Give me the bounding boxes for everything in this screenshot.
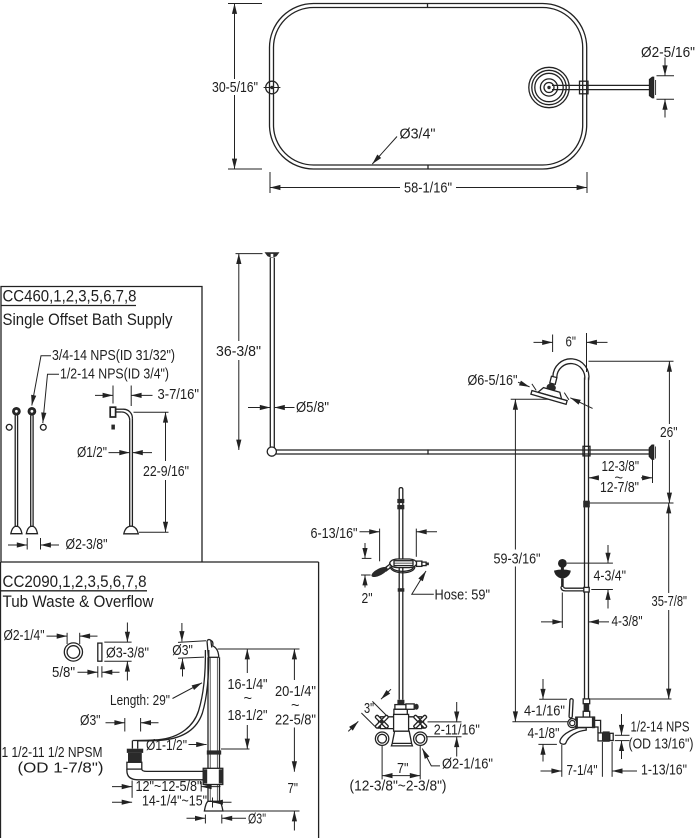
leader to supply pipe 1 bbox=[32, 356, 51, 406]
dimension 4-1/8 bbox=[538, 744, 557, 761]
dimension 35-7/8 bbox=[668, 503, 670, 699]
svg-text:3/4-14 NPS(ID 31/32"): 3/4-14 NPS(ID 31/32") bbox=[52, 348, 175, 364]
svg-text:Ø1/2": Ø1/2" bbox=[77, 445, 107, 461]
hanger loop bbox=[390, 567, 415, 573]
slider body bbox=[390, 559, 417, 568]
hand shower neck bbox=[383, 564, 392, 572]
svg-text:3": 3" bbox=[364, 701, 374, 717]
diverter on slide bar bbox=[394, 700, 419, 715]
shower head bbox=[531, 385, 569, 405]
dimension OD 13/16 bbox=[615, 714, 630, 759]
curtain rod rail (elevation) bbox=[270, 450, 650, 454]
extension line at 26/35-7/8 bbox=[589, 502, 674, 504]
curtain rod plan view inner ring bbox=[274, 8, 583, 166]
drain locknut bbox=[127, 762, 142, 769]
svg-text:(12-3/8"~2-3/8"): (12-3/8"~2-3/8") bbox=[350, 779, 447, 795]
right faucet riser fittings bbox=[583, 699, 590, 717]
dimension 7-1/4 bbox=[541, 742, 603, 777]
svg-text:CC2090,1,2,3,5,6,7,8: CC2090,1,2,3,5,6,7,8 bbox=[3, 573, 147, 591]
dimension 26 bbox=[589, 361, 674, 503]
ceiling flange (elevation) bbox=[265, 252, 280, 257]
svg-text:14-1/4"~15": 14-1/4"~15" bbox=[142, 794, 207, 810]
wall-support flange rings (plan) bbox=[529, 67, 569, 107]
overflow head bbox=[207, 640, 219, 658]
dimension 14-1/4 ~ 15 bbox=[112, 798, 232, 808]
right faucet valve bonnet bbox=[568, 719, 577, 728]
dimension 3-7/16 bbox=[95, 386, 153, 407]
faucet body (center) bbox=[378, 714, 424, 731]
rod joint tick top (plan) bbox=[427, 4, 429, 9]
dimension dia 2-1/16 with leader bbox=[422, 749, 440, 766]
svg-text:12-7/8": 12-7/8" bbox=[600, 480, 639, 496]
svg-text:~: ~ bbox=[244, 691, 253, 707]
hand shower head bbox=[370, 565, 389, 579]
curtain rod plan view outer ring bbox=[270, 4, 587, 170]
CC2090 box border bbox=[1, 562, 319, 838]
svg-text:58-1/16": 58-1/16" bbox=[404, 180, 452, 196]
dimension 4-3/4 bbox=[567, 545, 613, 609]
dimension 12 ~ 12-5/8 bbox=[112, 781, 221, 798]
slide bar mid band bbox=[398, 588, 405, 592]
slide bar (center product) bbox=[399, 488, 403, 700]
dimension dia 2-5/16 bbox=[657, 58, 675, 118]
svg-text:12"~12-5/8": 12"~12-5/8" bbox=[136, 779, 202, 795]
dimension 59-3/16 bbox=[511, 399, 562, 722]
svg-text:Ø3": Ø3" bbox=[248, 812, 266, 828]
riser coupling band bbox=[583, 501, 590, 508]
svg-text:59-3/16": 59-3/16" bbox=[494, 551, 541, 567]
svg-text:Ø2-5/16": Ø2-5/16" bbox=[641, 45, 695, 61]
dimension dia 3 (base) bbox=[187, 815, 247, 824]
slide bar top fitting bbox=[397, 499, 404, 509]
right faucet wall nipple bbox=[598, 731, 613, 741]
svg-text:4-1/16": 4-1/16" bbox=[524, 704, 565, 720]
rod clamp at ring crossing (plan) bbox=[580, 81, 589, 94]
svg-text:5/8": 5/8" bbox=[52, 665, 75, 681]
overflow pipe bbox=[208, 657, 220, 801]
dimension 7 (center) bbox=[382, 746, 420, 779]
flexible hose bbox=[133, 650, 209, 741]
svg-text:Ø3-3/8": Ø3-3/8" bbox=[106, 646, 149, 662]
rail wall bracket (elevation) bbox=[649, 445, 655, 459]
dimension 7 (overflow base) bbox=[224, 811, 300, 831]
svg-text:6": 6" bbox=[566, 335, 577, 351]
side outlet circle 2 bbox=[40, 424, 46, 430]
label dia 6-5/16 bbox=[518, 382, 593, 408]
svg-text:35-7/8": 35-7/8" bbox=[652, 594, 688, 610]
svg-text:1/2-14 NPS(ID 3/4"): 1/2-14 NPS(ID 3/4") bbox=[60, 366, 169, 382]
waste tee bbox=[203, 768, 223, 784]
svg-text:Hose: 59": Hose: 59" bbox=[435, 588, 491, 604]
ceiling support pipe (elevation) bbox=[270, 258, 274, 450]
svg-text:4-3/8": 4-3/8" bbox=[612, 614, 643, 630]
svg-text:CC460,1,2,3,5,6,7,8: CC460,1,2,3,5,6,7,8 bbox=[3, 288, 137, 306]
overflow base flange bbox=[204, 801, 223, 811]
svg-text:Ø6-5/16": Ø6-5/16" bbox=[468, 373, 518, 389]
overflow gasket ring bbox=[64, 643, 82, 661]
svg-text:Length: 29": Length: 29" bbox=[110, 693, 170, 709]
wall bracket (plan) bbox=[650, 77, 656, 97]
supply pipe 1 bbox=[11, 408, 22, 534]
dimension 30-5/16 bbox=[228, 4, 262, 170]
dimension dia 2-1/4 bbox=[47, 633, 98, 644]
overflow plate side view bbox=[98, 643, 102, 661]
svg-text:26": 26" bbox=[660, 425, 678, 441]
dimension dia 3 (overflow head) bbox=[178, 623, 206, 677]
gooseneck bbox=[553, 359, 589, 380]
svg-text:18-1/2": 18-1/2" bbox=[228, 708, 268, 724]
supply pipe 2 bbox=[26, 408, 37, 534]
dimension dia 1/2 bbox=[109, 452, 153, 454]
svg-text:Ø3/4": Ø3/4" bbox=[400, 127, 436, 143]
svg-text:7": 7" bbox=[397, 761, 409, 777]
pipe coupling band bbox=[207, 750, 221, 754]
drain stub bbox=[132, 741, 137, 749]
svg-text:22-5/8": 22-5/8" bbox=[275, 712, 316, 728]
svg-text:36-3/8": 36-3/8" bbox=[216, 344, 261, 360]
dimension dia 3-3/8 bbox=[104, 623, 131, 681]
rod section joint tick bbox=[427, 449, 429, 454]
rail ball joint at support bbox=[267, 447, 276, 456]
svg-text:1-13/16": 1-13/16" bbox=[641, 763, 687, 779]
svg-text:3-7/16": 3-7/16" bbox=[158, 387, 200, 403]
CC460 box border bbox=[1, 287, 202, 563]
dimension 1-13/16 bbox=[612, 742, 637, 777]
right faucet outlet elbow bbox=[595, 720, 601, 732]
side outlet circle 1 bbox=[6, 424, 12, 430]
right faucet lever bbox=[569, 699, 573, 718]
svg-text:Single Offset Bath Supply: Single Offset Bath Supply bbox=[3, 311, 174, 329]
drain elbow and waste pipe bbox=[127, 769, 203, 780]
svg-text:2": 2" bbox=[362, 591, 373, 607]
left ceiling-support flange (plan) bbox=[264, 81, 281, 94]
svg-text:Ø5/8": Ø5/8" bbox=[296, 400, 329, 416]
dimension dia 2-3/8 bbox=[8, 538, 59, 550]
svg-text:Ø1-1/2": Ø1-1/2" bbox=[146, 738, 187, 754]
hose connector bbox=[417, 561, 429, 566]
dimension 22-9/16 bbox=[134, 412, 169, 532]
svg-text:Tub Waste & Overflow: Tub Waste & Overflow bbox=[3, 593, 154, 611]
drain strainer body bbox=[127, 749, 143, 763]
dimension 2-11/16 bbox=[426, 702, 462, 757]
right faucet spout bbox=[560, 728, 586, 745]
dimension dia 5/8 bbox=[248, 407, 295, 409]
svg-text:1 1/2-11 1/2 NPSM: 1 1/2-11 1/2 NPSM bbox=[2, 745, 103, 761]
extension line at faucet top bbox=[591, 698, 672, 700]
dimension 2 bbox=[361, 543, 371, 588]
dimension 12-3/8 ~ 12-7/8 bbox=[589, 459, 653, 484]
spout (center) bbox=[391, 731, 412, 746]
rail clamp at shower riser bbox=[583, 446, 590, 456]
dimension 20-1/4 ~ 22-5/8 bbox=[293, 649, 295, 772]
hand shower holder (right) bbox=[554, 559, 589, 592]
faucet centerline extension bbox=[512, 721, 568, 723]
svg-text:1/2-14 NPS: 1/2-14 NPS bbox=[631, 720, 690, 736]
svg-text:Ø3": Ø3" bbox=[80, 713, 101, 729]
shower riser (right product) bbox=[585, 378, 589, 700]
svg-text:(OD 1-7/8"): (OD 1-7/8") bbox=[18, 761, 104, 777]
svg-text:4-3/4": 4-3/4" bbox=[594, 569, 627, 585]
svg-text:6-13/16": 6-13/16" bbox=[311, 526, 358, 542]
dimension 4-1/16 bbox=[539, 679, 567, 699]
right faucet body bbox=[575, 716, 595, 728]
shower head connector bbox=[546, 376, 557, 392]
svg-text:Ø2-1/4": Ø2-1/4" bbox=[4, 628, 45, 644]
union right bbox=[414, 732, 427, 745]
offset supply pipe bbox=[110, 407, 138, 534]
svg-text:Ø2-1/16": Ø2-1/16" bbox=[442, 757, 493, 773]
leader to side outlet bbox=[43, 374, 59, 423]
dimension 3 (diagonal) bbox=[348, 689, 391, 731]
dimension 5/8 bbox=[78, 666, 120, 677]
dimension 6 (gooseneck) bbox=[534, 333, 608, 372]
dimension 4-3/8 bbox=[541, 593, 609, 629]
dimension 16-1/4 ~ 18-1/2 bbox=[218, 649, 300, 749]
rod joint tick bottom (plan) bbox=[427, 165, 429, 170]
label dia 3/4 with leader bbox=[372, 137, 397, 165]
svg-text:2-11/16": 2-11/16" bbox=[434, 722, 480, 738]
svg-text:Ø2-3/8": Ø2-3/8" bbox=[66, 537, 108, 553]
svg-text:22-9/16": 22-9/16" bbox=[143, 464, 189, 480]
dimension 36-3/8 bbox=[236, 254, 263, 450]
svg-text:(OD 13/16"): (OD 13/16") bbox=[629, 737, 694, 753]
svg-text:7-1/4": 7-1/4" bbox=[567, 763, 598, 779]
dimension 58-1/16 bbox=[270, 172, 587, 193]
svg-text:Ø3": Ø3" bbox=[172, 643, 193, 659]
cross handle left bbox=[370, 710, 393, 733]
svg-text:4-1/8": 4-1/8" bbox=[528, 726, 560, 742]
cross handle right bbox=[409, 710, 432, 733]
dimension dia 3 (drain strainer) bbox=[106, 718, 159, 732]
wall-support rod (plan) bbox=[552, 85, 650, 89]
union left bbox=[375, 732, 388, 745]
svg-text:30-5/16": 30-5/16" bbox=[212, 80, 258, 96]
svg-text:7": 7" bbox=[288, 781, 299, 797]
dimension 6-13/16 bbox=[360, 529, 438, 562]
